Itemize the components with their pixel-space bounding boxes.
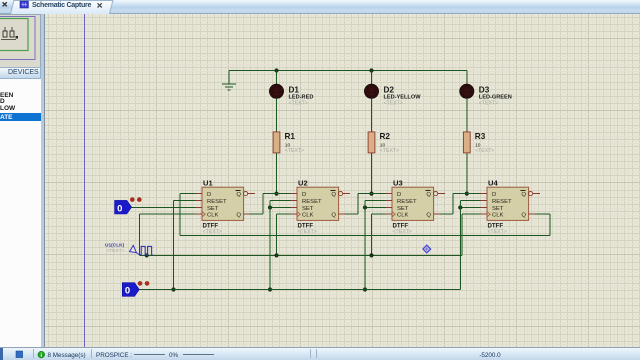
svg-text:<TEXT>: <TEXT> [298,229,317,235]
svg-text:RESET: RESET [397,199,417,205]
overview mini schematic [1,27,18,40]
svg-text:Q: Q [426,192,431,198]
pin label Qbar of U4 [520,191,526,198]
node U3.SET junction [363,205,367,209]
node U1.RESET junction on reset bus [171,287,175,291]
wire U2.Q to U3.D [358,193,386,195]
wire U3.RESET branch [365,200,386,202]
LED D2 [364,84,378,98]
wire bottom reset bus from logic state [139,289,460,291]
wire U4.Q feedback to U1.D [180,214,550,235]
svg-text:<TEXT>: <TEXT> [203,229,222,235]
wire U3.Q to U4.D [453,193,481,195]
wire clock bus [140,254,462,256]
node indicator dots top logic state [130,197,142,202]
wire U2.Q up riser [345,213,358,215]
pin stubs left of U1 [196,194,203,215]
pin Q stub of U2 [339,213,346,215]
node rail-D1 junction [274,68,278,72]
wire clock riser to U3.CLK [371,214,373,255]
svg-text:U2: U2 [298,178,308,187]
tab icon schematic [20,1,28,8]
pin Qbar bubble and stub of U4 [529,192,541,196]
svg-text:D: D [492,192,496,198]
pin Q stub of U3 [434,213,441,215]
wire clock riser to U2.CLK [276,214,278,255]
pin Q stub of U1 [244,213,251,215]
svg-text:Q: Q [331,192,336,198]
svg-text:CLK: CLK [302,213,314,219]
pin Qbar bubble and stub of U2 [339,192,351,196]
svg-text:Q: Q [331,213,336,219]
wire U1.Q to U2.D [263,193,291,195]
node clock bus junction U2 [274,253,278,257]
node U4.SET junction [458,205,462,209]
LED D3 [460,84,474,98]
svg-text:Q: Q [521,192,526,198]
wire D3 cathode to R3 [466,98,468,132]
node U3 junction on reset bus [363,287,367,291]
wire rail to D2 anode [371,71,373,86]
svg-text:Q: Q [236,213,241,219]
svg-text:Q: Q [426,213,431,219]
wire U4 reset/set vertical to reset bus [459,201,461,290]
node rail-D2 junction [369,68,373,72]
wire rail to D3 anode [466,71,468,86]
op-amp U4 (DTFF flip-flop) [487,187,529,220]
wire D1 cathode to R1 [276,98,278,132]
svg-text:SET: SET [207,206,219,212]
svg-text:RESET: RESET [492,199,512,205]
wire U3 reset/set vertical to reset bus [364,201,366,290]
wire rail to D1 anode [276,71,278,86]
svg-text:R3: R3 [475,132,486,141]
svg-text:<TEXT>: <TEXT> [393,229,412,235]
node R2 junction on Q2 net [369,192,373,196]
logic state input 0 (RESET bus) [122,283,139,297]
wire U2 reset/set vertical to reset bus [269,201,271,290]
pin Qbar bubble and stub of U1 [244,192,256,196]
svg-text:<TEXT>: <TEXT> [479,100,498,106]
op-amp U3 (DTFF flip-flop) [392,187,434,220]
pin label Qbar of U3 [425,191,431,198]
status progress 0% [134,352,214,359]
svg-text:D2: D2 [384,86,395,95]
wire R1 to Q net of U1 [276,153,278,194]
status stop button [16,351,23,358]
resistor R2 [368,132,375,153]
wire U1.SET from logic state [132,207,196,209]
node indicator dots bottom logic state [138,281,150,286]
svg-text:R1: R1 [285,132,296,141]
tab close x [98,3,102,7]
svg-text:<TEXT>: <TEXT> [488,229,507,235]
svg-text:SET: SET [397,206,409,212]
pin Qbar bubble and stub of U3 [434,192,446,196]
wire R3 to Q net of U3 [466,153,468,194]
node U2 junction on reset bus [268,287,272,291]
overview viewport rect [0,19,28,51]
wire U3.Q up riser [440,213,453,215]
pin stubs left of U4 [481,194,488,215]
divider [41,14,45,347]
op-amp U1 (DTFF flip-flop) [202,187,244,220]
svg-text:D1: D1 [289,86,300,95]
node R1 junction on Q1 net [274,192,278,196]
svg-text:SET: SET [492,206,504,212]
logic state input 0 (SET of U1) [115,200,132,214]
op-amp U2 (DTFF flip-flop) [297,187,339,220]
wire U1.CLK down to clock bus [140,213,196,215]
svg-text:<TEXT>: <TEXT> [475,148,494,154]
device list [0,79,41,347]
svg-text:CLK: CLK [492,213,504,219]
svg-text:D: D [397,192,401,198]
origin marker diamond [423,245,431,253]
node U2.SET junction [268,205,272,209]
LED D1 [269,84,283,98]
wire U2.SET branch [270,207,291,209]
svg-text:0: 0 [125,286,130,297]
wire U2.RESET branch [270,200,291,202]
ground [222,71,236,90]
status bar [0,347,640,360]
status message icon [38,351,45,358]
svg-text:<TEXT>: <TEXT> [285,148,304,154]
wire U1.RESET down to reset bus [174,200,196,202]
wire D2 cathode to R2 [371,98,373,132]
resistor R3 [463,132,470,153]
svg-text:<TEXT>: <TEXT> [384,100,403,106]
svg-text:D: D [207,192,211,198]
node clock generator junction [145,253,149,257]
status separators [34,349,317,358]
wire U4.RESET branch [460,200,480,202]
pin stubs left of U3 [386,194,393,215]
svg-text:SET: SET [302,206,314,212]
devices header [0,67,41,79]
svg-text:U4: U4 [488,178,498,187]
node clock bus junction U3 [369,253,373,257]
svg-text:U1: U1 [203,178,213,187]
pin label Qbar of U1 [235,191,241,198]
wire U1.Q up riser [250,213,263,215]
svg-text:0: 0 [117,203,122,214]
svg-text:U1(CLK): U1(CLK) [105,243,125,249]
svg-text:Q: Q [521,213,526,219]
clock generator symbol [130,245,153,255]
node R3 junction on Q3 net [465,192,469,196]
svg-text:<TEXT>: <TEXT> [289,100,308,106]
svg-text:R2: R2 [380,132,391,141]
svg-text:D: D [302,192,306,198]
wire top ground rail [229,70,467,72]
resistor R1 [273,132,280,153]
wire U1.D feedback riser [180,193,195,195]
status left grip [0,348,3,360]
svg-text:CLK: CLK [397,213,409,219]
sidebar overview panel [0,14,41,68]
wire R2 to Q net of U2 [371,153,373,194]
svg-text:U3: U3 [393,178,403,187]
svg-text:Q: Q [236,192,241,198]
pin label Qbar of U2 [330,191,336,198]
wire U4.SET branch [460,207,480,209]
svg-text:<TEXT>: <TEXT> [380,148,399,154]
svg-text:RESET: RESET [302,199,322,205]
pin stubs left of U2 [291,194,298,215]
svg-text:CLK: CLK [207,213,219,219]
wire U3.SET branch [365,207,386,209]
svg-text:D3: D3 [479,86,490,95]
wire clock riser to U4.CLK [461,214,463,255]
overview sheet frame [0,17,35,60]
svg-text:RESET: RESET [207,199,227,205]
close pane button X [3,2,7,6]
tab bar [0,0,640,14]
pin Q stub of U4 [529,213,536,215]
svg-text:<TEXT>: <TEXT> [107,248,125,254]
